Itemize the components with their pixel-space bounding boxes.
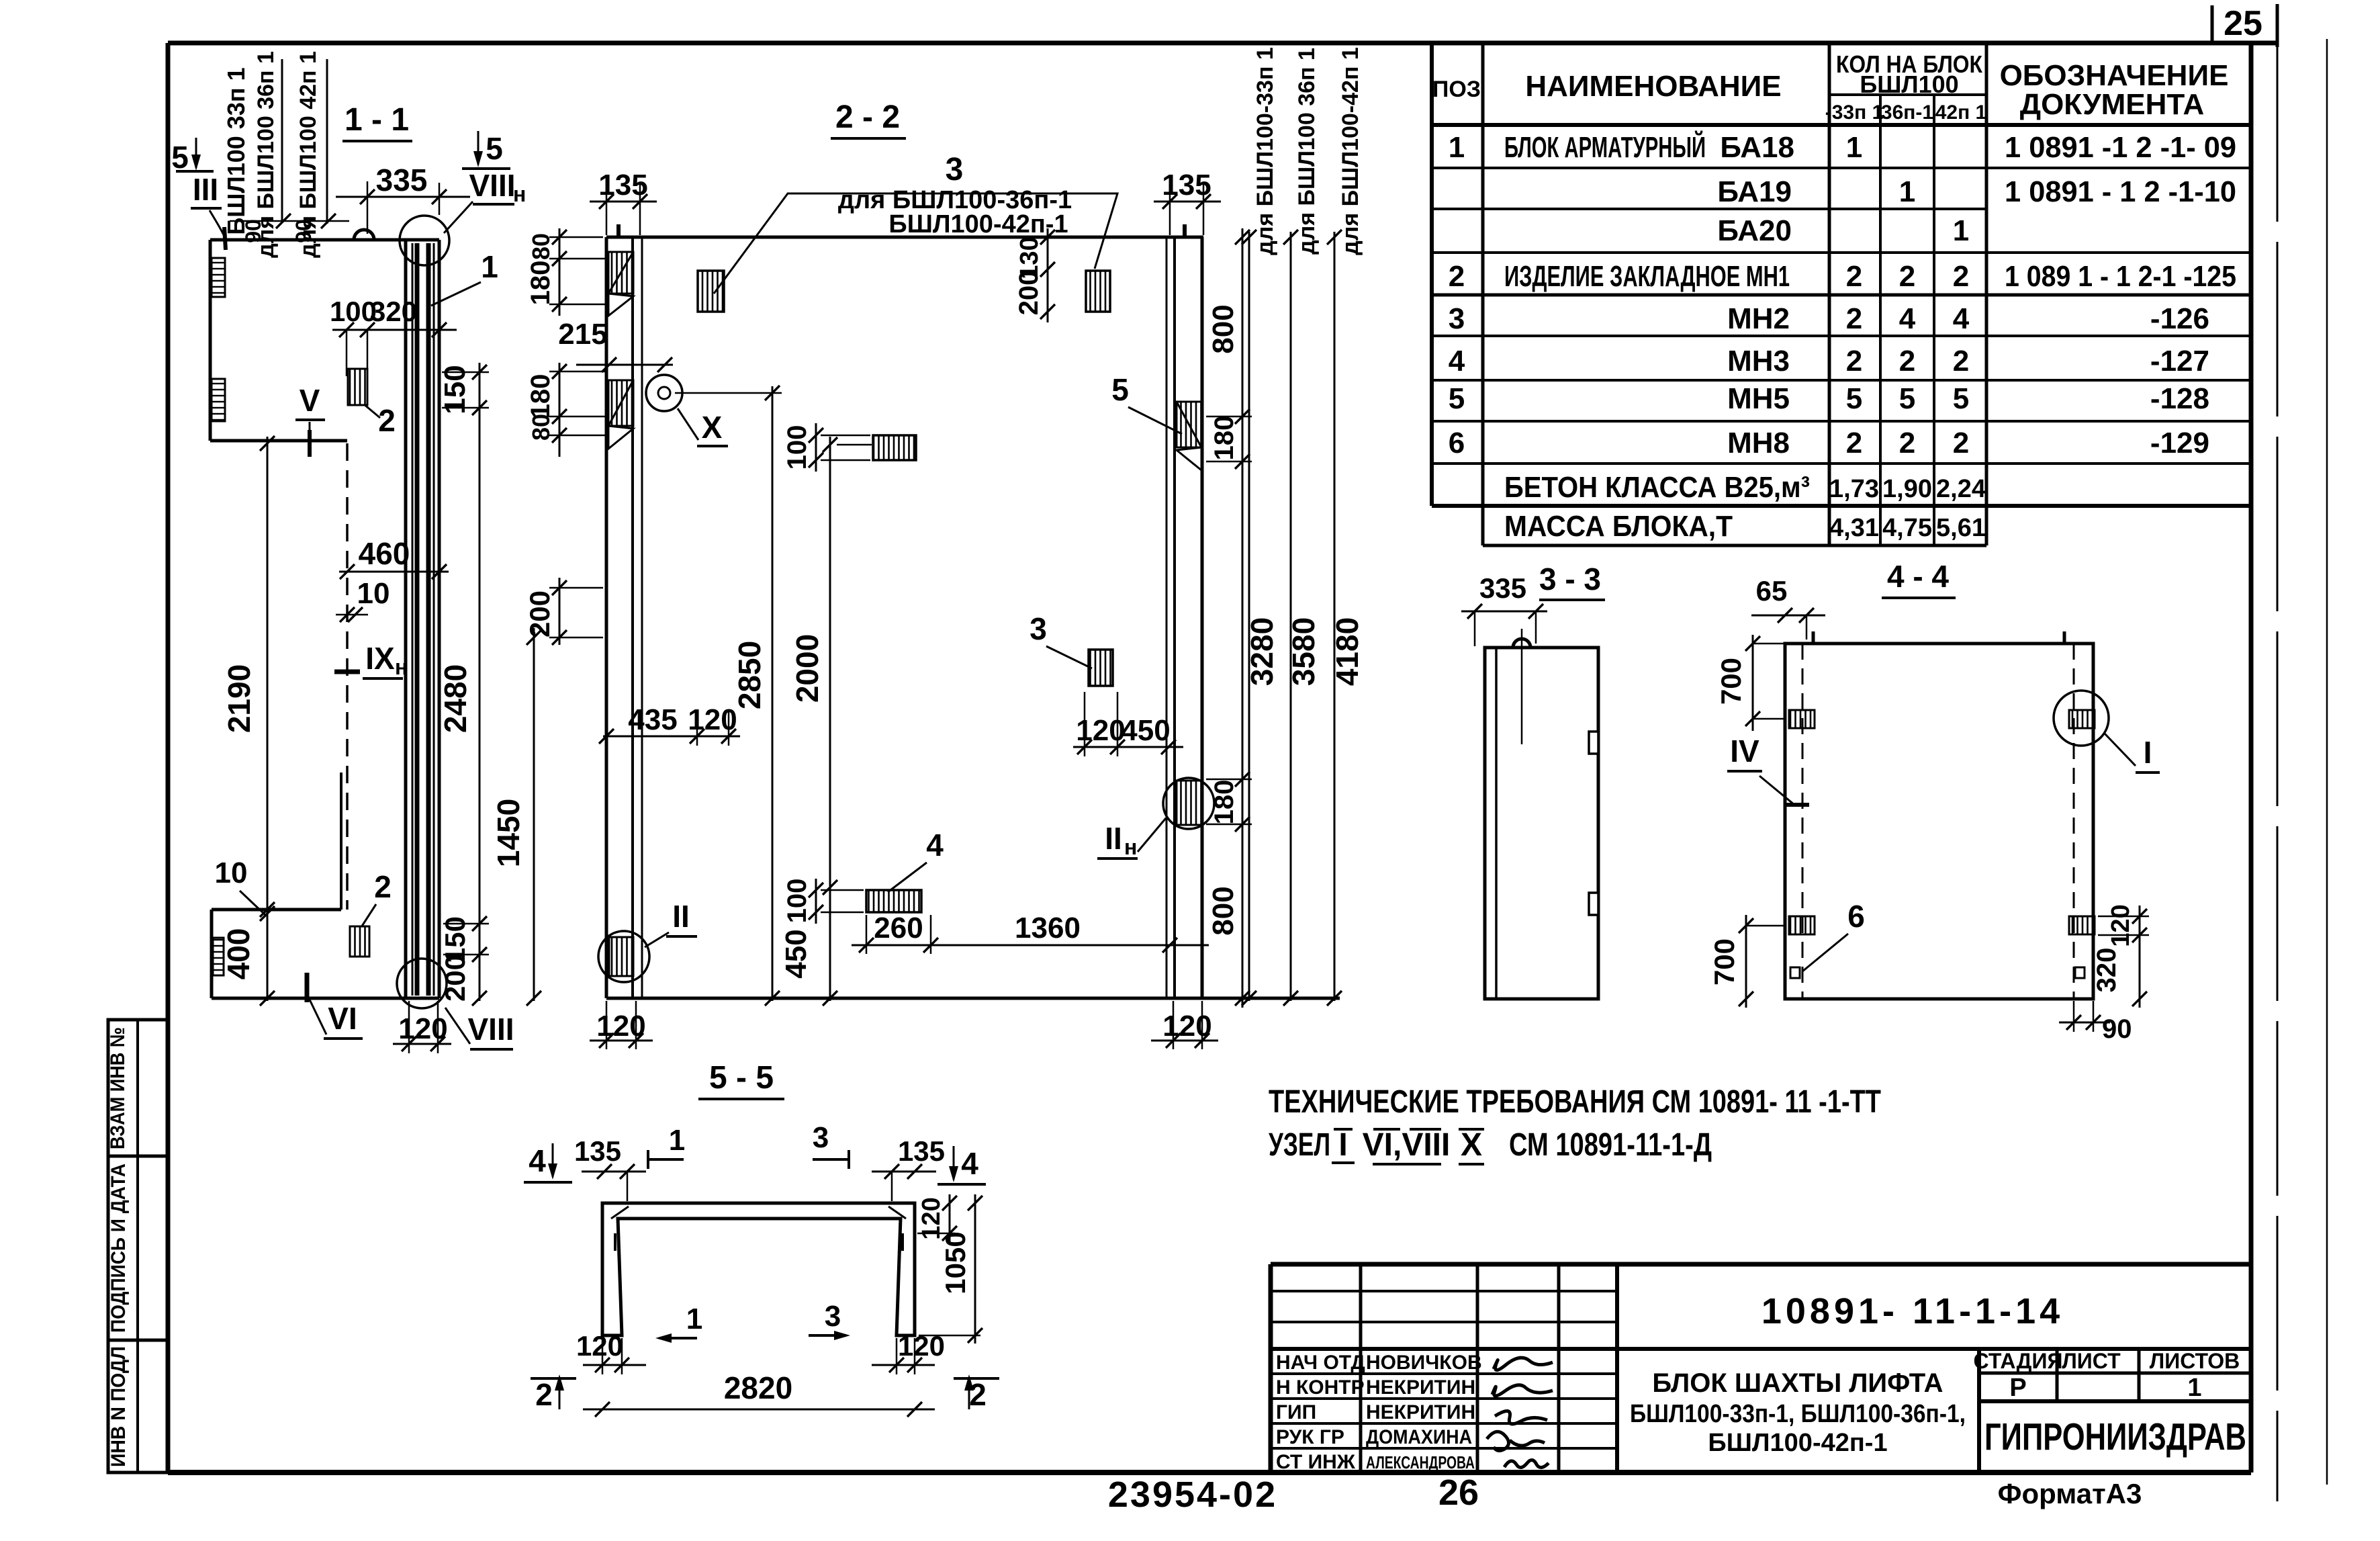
plate right lower: [2069, 916, 2095, 934]
left stamp boxes: [107, 1020, 167, 1472]
title block signature labels: [1276, 1352, 1482, 1473]
svg-text:215: 215: [558, 318, 607, 351]
dimension 120 rot right: [949, 1194, 951, 1244]
svg-text:335: 335: [376, 163, 428, 197]
svg-text:800: 800: [1207, 304, 1240, 353]
label VI: [305, 973, 310, 1002]
svg-text:42п 1: 42п 1: [1935, 101, 1987, 124]
dimension 2000 450: [829, 437, 831, 1001]
svg-text:90: 90: [291, 219, 316, 243]
dimension 120 bottom right wall: [1151, 1040, 1218, 1042]
svg-text:135: 135: [898, 1135, 945, 1167]
svg-text:180: 180: [526, 261, 555, 306]
svg-text:-127: -127: [2150, 345, 2209, 378]
dimension chain 800 180 right: [1242, 228, 1244, 1008]
svg-text:120: 120: [2107, 904, 2135, 946]
svg-text:2: 2: [535, 1377, 553, 1412]
plate P4 item 3: [1089, 650, 1113, 686]
view 4-4 loop marks: [1812, 631, 1815, 644]
svg-text:135: 135: [1162, 169, 1211, 202]
svg-text:2: 2: [1846, 302, 1862, 335]
svg-text:120: 120: [898, 1330, 945, 1362]
svg-text:СМ 10891-11-1-Д: СМ 10891-11-1-Д: [1509, 1127, 1712, 1163]
svg-text:БЛОК ШАХТЫ ЛИФТА: БЛОК ШАХТЫ ЛИФТА: [1652, 1368, 1943, 1398]
right wall groove item 5: [1177, 402, 1201, 447]
svg-text:335: 335: [1479, 572, 1526, 604]
svg-text:1,90: 1,90: [1882, 475, 1932, 503]
plate left upper: [1789, 710, 1815, 728]
svg-text:VIII: VIII: [467, 1012, 514, 1047]
svg-text:120: 120: [596, 1010, 645, 1043]
svg-text:1: 1: [1846, 131, 1862, 164]
svg-text:5: 5: [171, 140, 189, 175]
svg-text:2: 2: [1953, 260, 1969, 293]
view 2-2 left wall: [605, 237, 608, 998]
table row 6 МН3: [1449, 345, 2209, 378]
svg-text:5,61: 5,61: [1936, 514, 1986, 542]
node circle I: [2054, 691, 2109, 746]
svg-text:2: 2: [1449, 260, 1465, 293]
svg-text:260: 260: [874, 912, 923, 944]
dimension 100 320: [332, 329, 457, 331]
svg-text:НЕКРИТИН: НЕКРИТИН: [1366, 1376, 1475, 1399]
svg-text:2: 2: [1953, 345, 1969, 378]
svg-text:4: 4: [961, 1146, 978, 1181]
svg-text:РУК ГР: РУК ГР: [1276, 1426, 1344, 1448]
view 1-1 edge plate middle: [212, 379, 225, 421]
svg-text:СТАДИЯ: СТАДИЯ: [1974, 1349, 2063, 1373]
svg-text:ИЗДЕЛИЕ ЗАКЛАДНОЕ МН1: ИЗДЕЛИЕ ЗАКЛАДНОЕ МН1: [1504, 260, 1790, 293]
svg-text:10891- 11-1-14: 10891- 11-1-14: [1761, 1291, 2064, 1331]
svg-text:135: 135: [574, 1135, 621, 1167]
svg-text:100: 100: [782, 425, 812, 470]
svg-text:IV: IV: [1730, 734, 1759, 768]
svg-text:10: 10: [357, 577, 390, 610]
svg-text:3: 3: [825, 1300, 841, 1333]
view 1-1 edge plate bottom: [213, 938, 224, 975]
svg-text:2: 2: [374, 869, 392, 904]
svg-text:3580: 3580: [1286, 617, 1321, 686]
svg-text:4,75: 4,75: [1882, 514, 1932, 542]
svg-text:2: 2: [1899, 427, 1915, 459]
svg-text:120: 120: [576, 1330, 623, 1362]
sheet scan edge line: [2326, 39, 2328, 1485]
svg-text:БА18: БА18: [1720, 131, 1794, 164]
svg-text:ПОДПИСЬ И ДАТА: ПОДПИСЬ И ДАТА: [107, 1163, 130, 1333]
svg-text:1 - 1: 1 - 1: [345, 102, 409, 138]
dimension 100 at plate P3: [815, 423, 817, 472]
svg-text:для БШЛ100-33п 1: для БШЛ100-33п 1: [1252, 47, 1278, 255]
svg-text:БШЛ100-42п-1: БШЛ100-42п-1: [1708, 1429, 1887, 1457]
svg-text:2820: 2820: [724, 1370, 792, 1405]
svg-text:н: н: [513, 182, 526, 206]
svg-text:1,73: 1,73: [1829, 475, 1879, 503]
left wall groove 1: [608, 252, 633, 294]
table row 9 concrete: [1504, 471, 1986, 504]
svg-text:ВЗАМ ИНВ №: ВЗАМ ИНВ №: [107, 1027, 129, 1149]
view 1-1 edge plate top: [212, 258, 225, 297]
svg-text:II: II: [1105, 821, 1122, 856]
dimension 1050: [974, 1194, 976, 1344]
svg-text:V: V: [300, 383, 320, 418]
svg-text:3: 3: [1029, 611, 1047, 646]
lifting loop marks on top edge: [616, 224, 621, 237]
svg-text:5: 5: [486, 131, 503, 166]
svg-text:МН2: МН2: [1727, 302, 1790, 335]
svg-text:180: 180: [526, 374, 555, 419]
svg-text:4: 4: [1899, 302, 1916, 335]
svg-text:1: 1: [669, 1124, 685, 1157]
svg-text:-128: -128: [2150, 382, 2209, 415]
svg-text:180: 180: [1209, 780, 1239, 825]
svg-text:Н КОНТР: Н КОНТР: [1276, 1376, 1365, 1399]
overall dim lines 3280 3580 4180: [1248, 232, 1250, 1001]
svg-text:2000: 2000: [790, 634, 825, 703]
svg-text:ТЕХНИЧЕСКИЕ ТРЕБОВАНИЯ СМ 1: ТЕХНИЧЕСКИЕ ТРЕБОВАНИЯ СМ 10891- 11 -1-Т…: [1269, 1084, 1881, 1120]
dimension 150 right upper: [479, 363, 481, 1001]
dimension 100 at plate P5: [815, 879, 817, 924]
dimension 135 left top: [590, 201, 657, 203]
svg-text:4: 4: [529, 1143, 546, 1178]
svg-text:2480: 2480: [438, 664, 473, 733]
svg-text:ДОКУМЕНТА: ДОКУМЕНТА: [2020, 88, 2205, 121]
svg-text:БШЛ100-33п-1, БШЛ100-36п-1,: БШЛ100-33п-1, БШЛ100-36п-1,: [1630, 1400, 1966, 1428]
svg-text:4: 4: [926, 828, 944, 863]
view 3-3 body: [1485, 648, 1598, 999]
view 2-2 bottom edge: [606, 997, 1340, 1000]
view 1-1 guide rails item 1: [412, 243, 414, 996]
svg-text:VIII: VIII: [469, 168, 515, 203]
svg-text:5: 5: [1953, 382, 1969, 415]
svg-text:БА19: БА19: [1717, 175, 1792, 208]
svg-text:БШЛ100-42п-1: БШЛ100-42п-1: [888, 210, 1068, 238]
view 1-1 lifting loop: [354, 230, 374, 240]
svg-text:3: 3: [946, 152, 964, 187]
svg-text:23954-02: 23954-02: [1108, 1474, 1277, 1515]
svg-text:36п-1: 36п-1: [1881, 101, 1933, 124]
svg-text:80: 80: [527, 414, 555, 441]
dimension 90 pair: [230, 220, 349, 222]
svg-text:ПОЗ: ПОЗ: [1432, 77, 1481, 102]
svg-text:1: 1: [2187, 1374, 2201, 1402]
svg-text:2: 2: [1899, 260, 1915, 293]
svg-text:700: 700: [1715, 658, 1747, 705]
plate P1 item 3: [698, 271, 724, 312]
svg-text:I: I: [1338, 1127, 1347, 1163]
dimension 80 180 upper left: [559, 228, 561, 316]
view 4-4 hidden lines: [1802, 644, 1804, 999]
svg-text:800: 800: [1207, 886, 1240, 935]
table row 7 МН5: [1449, 382, 2209, 415]
svg-text:5: 5: [1449, 382, 1465, 415]
dimension 120 bottom left wall: [590, 1040, 653, 1042]
node circle VIII bottom: [397, 959, 447, 1008]
table row 4 МН1: [1449, 260, 2236, 293]
dimension 200 left mid: [559, 578, 561, 645]
left wall groove 2: [608, 380, 633, 426]
dimension 700 bottom: [1745, 915, 1747, 1008]
svg-text:БШЛ100: БШЛ100: [1860, 71, 1958, 98]
svg-text:-126: -126: [2150, 302, 2209, 335]
svg-text:450: 450: [780, 929, 813, 978]
svg-text:1: 1: [1449, 131, 1465, 164]
svg-text:ГИП: ГИП: [1276, 1401, 1316, 1423]
svg-text:X: X: [702, 410, 723, 445]
svg-text:МН8: МН8: [1727, 427, 1790, 459]
node X circle: [646, 375, 682, 411]
dimension 120 bottom view 1-1: [393, 1043, 451, 1045]
signature squiggles: [1487, 1358, 1553, 1467]
svg-text:460: 460: [359, 536, 410, 571]
view 1-1 outline: [210, 240, 439, 998]
dimension 1450 left: [533, 628, 535, 1001]
svg-text:VI,VIII: VI,VIII: [1363, 1127, 1451, 1163]
svg-text:IX: IX: [365, 641, 395, 676]
svg-text:3280: 3280: [1244, 617, 1279, 686]
svg-text:НЕКРИТИН: НЕКРИТИН: [1366, 1401, 1475, 1423]
svg-text:700: 700: [1708, 938, 1740, 985]
dimension 120 320 right: [2139, 906, 2141, 1008]
svg-text:2: 2: [378, 403, 396, 438]
plate P2: [1086, 271, 1110, 312]
plate left lower: [1789, 916, 1815, 934]
svg-text:135: 135: [598, 169, 647, 202]
svg-text:2: 2: [969, 1377, 987, 1412]
parts table grid: [1432, 43, 2251, 545]
svg-text:БА20: БА20: [1717, 214, 1792, 247]
svg-text:МАССА БЛОКА,Т: МАССА БЛОКА,Т: [1504, 510, 1733, 543]
svg-text:2190: 2190: [222, 664, 257, 733]
svg-text:5 - 5: 5 - 5: [709, 1060, 774, 1096]
svg-text:ОБОЗНАЧЕНИЕ: ОБОЗНАЧЕНИЕ: [2000, 59, 2229, 92]
plate P3: [873, 435, 916, 460]
small plate item 6: [1790, 967, 1800, 978]
svg-text:120: 120: [1076, 714, 1125, 747]
svg-text:1: 1: [481, 249, 498, 284]
table row 10 mass: [1504, 510, 1986, 543]
svg-text:2: 2: [1899, 345, 1915, 378]
table row 8 МН8: [1449, 427, 2209, 459]
svg-text:3: 3: [813, 1121, 829, 1154]
dimension 130 200 right top: [1047, 228, 1049, 322]
chamfer marks: [611, 1206, 629, 1219]
dimension 260 1360: [852, 944, 1209, 946]
svg-text:2850: 2850: [732, 641, 767, 709]
svg-text:ДОМАХИНА: ДОМАХИНА: [1366, 1426, 1472, 1448]
view 3-3 edge plate lower: [1589, 893, 1598, 915]
svg-text:1: 1: [1953, 214, 1969, 247]
svg-text:АЛЕКСАНДРОВА: АЛЕКСАНДРОВА: [1366, 1452, 1475, 1472]
svg-text:3 - 3: 3 - 3: [1539, 562, 1601, 597]
plate P5 item 4: [866, 890, 921, 912]
dimension 335 view 1-1: [336, 196, 470, 198]
svg-text:120: 120: [398, 1012, 447, 1045]
svg-text:н: н: [395, 655, 408, 679]
svg-text:НАЧ ОТД: НАЧ ОТД: [1276, 1352, 1365, 1374]
view 1-1 plate 2 lower: [350, 926, 369, 957]
dimension 460: [339, 571, 449, 573]
title block stage cells: [1974, 1349, 2240, 1402]
svg-text:МН3: МН3: [1727, 345, 1790, 378]
svg-text:ФорматА3: ФорматА3: [1998, 1478, 2142, 1509]
title block name: [1630, 1368, 1966, 1457]
table row 2 БА19: [1717, 175, 2236, 208]
view 2-2 top edge: [606, 236, 1203, 239]
svg-text:НАИМЕНОВАНИЕ: НАИМЕНОВАНИЕ: [1525, 70, 1781, 103]
svg-text:2: 2: [1846, 427, 1862, 459]
svg-text:120: 120: [688, 703, 737, 736]
svg-text:УЗЕЛ: УЗЕЛ: [1269, 1127, 1330, 1163]
svg-text:1 0891 - 1 2 -1-10: 1 0891 - 1 2 -1-10: [2005, 175, 2236, 208]
svg-text:3: 3: [1449, 302, 1465, 335]
svg-text:VI: VI: [328, 1001, 357, 1036]
svg-text:120: 120: [1162, 1010, 1211, 1043]
table row 3 БА20: [1717, 214, 1969, 247]
svg-text:180: 180: [1209, 416, 1239, 461]
node circle VIII top: [400, 216, 449, 265]
svg-text:II: II: [672, 899, 690, 934]
svg-text:III: III: [193, 172, 218, 207]
svg-text:6: 6: [1847, 899, 1865, 934]
svg-text:5: 5: [1111, 372, 1129, 407]
svg-text:БЕТОН КЛАССА В25,м³: БЕТОН КЛАССА В25,м³: [1504, 471, 1810, 504]
svg-text:4,31: 4,31: [1829, 514, 1879, 542]
svg-text:90: 90: [241, 219, 265, 243]
dimension 2850: [772, 386, 774, 1001]
svg-text:1360: 1360: [1015, 912, 1081, 944]
svg-text:БЛОК АРМАТУРНЫЙ: БЛОК АРМАТУРНЫЙ: [1504, 130, 1706, 164]
svg-text:2: 2: [1846, 260, 1862, 293]
svg-text:МН5: МН5: [1727, 382, 1790, 415]
svg-text:ЛИСТ: ЛИСТ: [2062, 1349, 2121, 1373]
svg-text:н: н: [1124, 835, 1137, 859]
svg-text:450: 450: [1121, 714, 1170, 747]
svg-text:для БШЛ100-42п 1: для БШЛ100-42п 1: [1338, 47, 1363, 255]
svg-text:-33п 1: -33п 1: [1825, 101, 1884, 124]
title block grid: [1271, 1264, 2251, 1472]
view 3-3 edge plate upper: [1589, 732, 1598, 754]
svg-text:4: 4: [1953, 302, 1970, 335]
svg-text:150: 150: [439, 365, 471, 414]
svg-text:2: 2: [1953, 427, 1969, 459]
svg-text:400: 400: [221, 928, 256, 980]
dimension 2190 and 400 line: [267, 437, 269, 1001]
svg-text:НОВИЧКОВ: НОВИЧКОВ: [1366, 1352, 1482, 1374]
svg-text:1 0891 -1 2 -1- 09: 1 0891 -1 2 -1- 09: [2005, 131, 2236, 164]
svg-text:200: 200: [1014, 271, 1044, 316]
table row 1 БА18: [1449, 130, 2236, 164]
dimension 2480 line with 150 200: [472, 916, 487, 931]
table row 5 МН2: [1449, 302, 2209, 335]
dimension 700 top: [1752, 635, 1754, 731]
svg-text:100: 100: [782, 879, 812, 924]
svg-text:435: 435: [628, 703, 677, 736]
svg-text:ЛИСТОВ: ЛИСТОВ: [2150, 1349, 2240, 1373]
view 1-1 hidden step edge: [346, 443, 349, 910]
left wall bottom plate in circle II: [609, 937, 633, 976]
technical notes line 2: [1269, 1127, 1712, 1164]
svg-text:I: I: [2144, 735, 2152, 770]
view 1-1 plate 2 upper: [348, 369, 367, 405]
svg-text:ИНВ N ПОДЛ: ИНВ N ПОДЛ: [107, 1346, 130, 1467]
dimension 90: [2059, 1022, 2110, 1024]
dimension 120 450 right: [1073, 746, 1183, 748]
svg-text:-129: -129: [2150, 427, 2209, 459]
view 4-4 body: [1785, 644, 2093, 999]
svg-text:4180: 4180: [1330, 617, 1365, 686]
small plate right: [2075, 967, 2085, 978]
svg-text:200: 200: [439, 955, 471, 1002]
view 3-3 lifting loop: [1513, 639, 1530, 648]
svg-text:80: 80: [527, 233, 555, 260]
right wall plate in circle II-n: [1177, 781, 1201, 825]
svg-text:БШЛ100 33п 1: БШЛ100 33п 1: [222, 67, 250, 234]
table header text: [1432, 50, 2229, 124]
svg-text:6: 6: [1449, 427, 1465, 459]
svg-text:65: 65: [1756, 575, 1788, 607]
svg-text:25: 25: [2224, 4, 2262, 43]
svg-text:320: 320: [2092, 948, 2121, 993]
svg-text:X: X: [1461, 1127, 1482, 1163]
right broken edge line: [2277, 47, 2279, 1501]
plate right upper: [2069, 710, 2095, 728]
dimension 180 80 lower left: [559, 363, 561, 457]
dimension 435 120: [603, 736, 740, 738]
svg-text:2 - 2: 2 - 2: [835, 99, 900, 135]
svg-text:4: 4: [1449, 345, 1465, 378]
svg-text:1: 1: [686, 1303, 702, 1335]
svg-text:26: 26: [1438, 1472, 1479, 1513]
svg-text:ГИПРОНИИЗДРАВ: ГИПРОНИИЗДРАВ: [1984, 1415, 2246, 1458]
svg-text:5: 5: [1846, 382, 1862, 415]
dimension 135 right top: [1154, 201, 1221, 203]
svg-text:1 089 1 - 1 2-1 -125: 1 089 1 - 1 2-1 -125: [2005, 260, 2236, 293]
svg-text:Р: Р: [2009, 1374, 2026, 1402]
svg-text:90: 90: [2102, 1014, 2132, 1044]
svg-text:2,24: 2,24: [1936, 475, 1986, 503]
svg-text:СТ ИНЖ: СТ ИНЖ: [1276, 1451, 1356, 1473]
sheet number box 25: [2212, 4, 2277, 47]
svg-text:5: 5: [1899, 382, 1915, 415]
svg-text:10: 10: [215, 856, 248, 889]
svg-text:4 - 4: 4 - 4: [1887, 559, 1949, 594]
svg-text:2: 2: [1846, 345, 1862, 378]
svg-text:320: 320: [370, 296, 417, 327]
svg-text:для БШЛ100 36п 1: для БШЛ100 36п 1: [1294, 48, 1320, 255]
svg-text:1450: 1450: [491, 799, 526, 867]
view 2-2 right wall: [1201, 237, 1204, 998]
view 5-5 channel outline: [602, 1203, 915, 1335]
svg-text:1: 1: [1899, 175, 1915, 208]
svg-text:1050: 1050: [940, 1231, 971, 1294]
